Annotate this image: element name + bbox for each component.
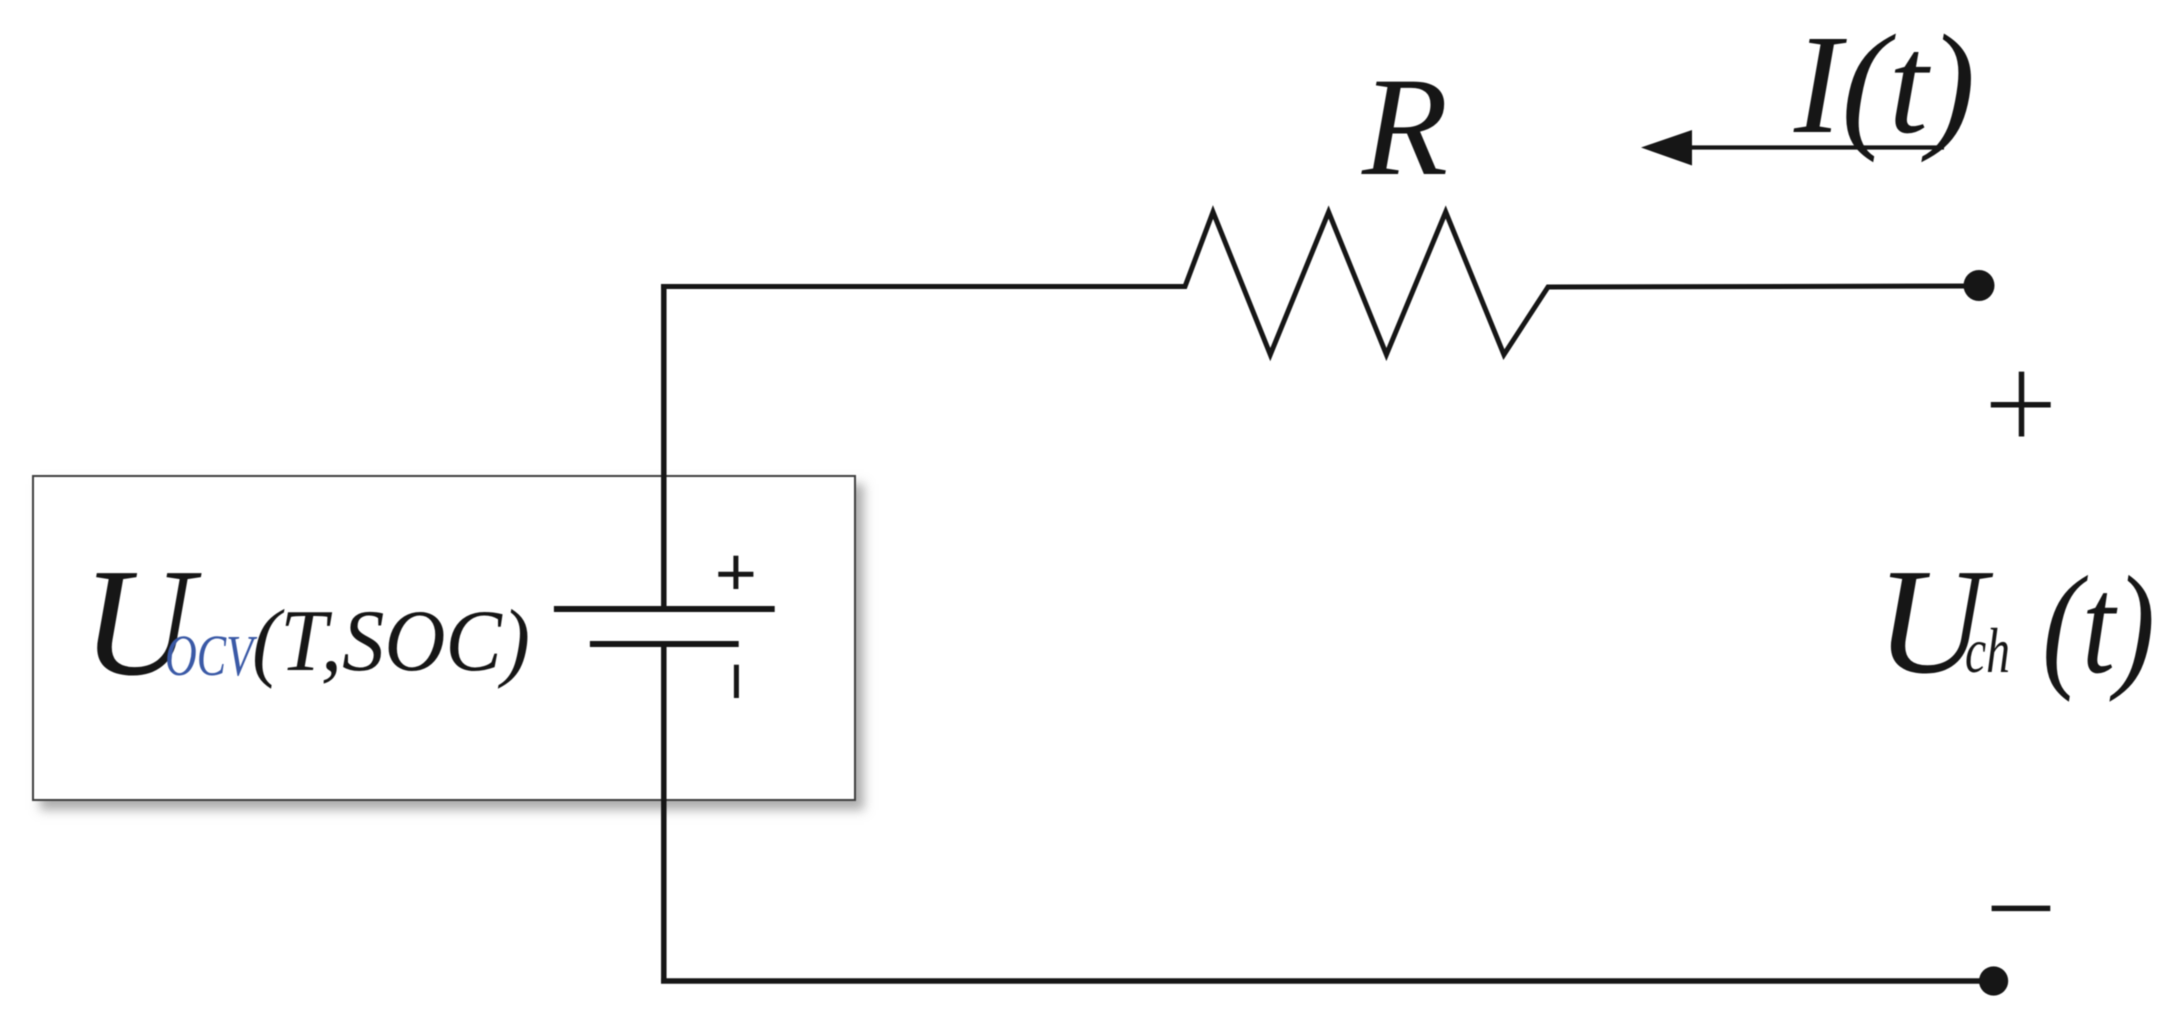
svg-text:R: R (1361, 49, 1448, 205)
svg-text:(T,SOC): (T,SOC) (252, 593, 530, 690)
svg-text:OCV: OCV (165, 623, 258, 688)
svg-text:(t): (t) (2042, 548, 2155, 703)
svg-text:I(t): I(t) (1793, 5, 1975, 163)
svg-text:ch: ch (1965, 615, 2010, 686)
